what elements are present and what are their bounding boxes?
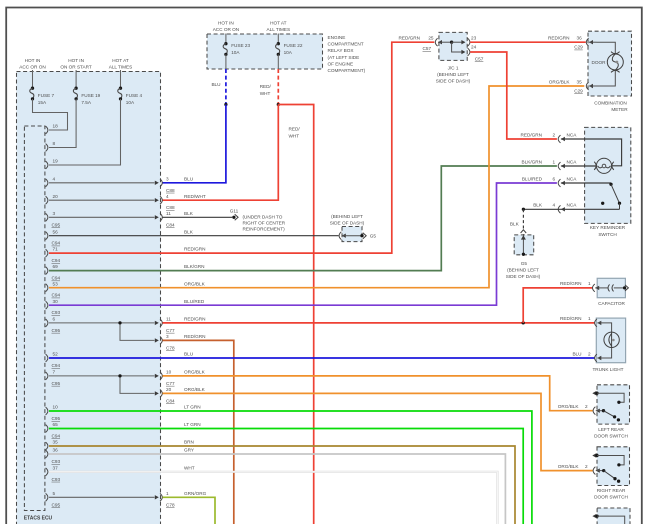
svg-text:G11: G11 <box>230 209 239 214</box>
svg-text:3: 3 <box>53 211 56 216</box>
svg-text:TRUNK LIGHT: TRUNK LIGHT <box>592 367 623 372</box>
wire NCA pin 1 into switch to bulb <box>561 165 597 167</box>
left rear door switch internal ground wire <box>597 393 624 404</box>
svg-text:10A: 10A <box>284 50 293 55</box>
svg-text:36: 36 <box>53 448 59 453</box>
svg-text:10A: 10A <box>231 50 240 55</box>
svg-text:LT GRN: LT GRN <box>184 422 201 427</box>
svg-text:C93: C93 <box>52 477 61 482</box>
svg-text:7: 7 <box>53 370 56 375</box>
key reminder switch box <box>585 127 631 223</box>
front door switch internal ground wire <box>597 516 625 524</box>
svg-text:RIGHT OF CENTER: RIGHT OF CENTER <box>243 220 286 225</box>
svg-text:11: 11 <box>166 317 171 322</box>
svg-text:36: 36 <box>577 36 583 41</box>
svg-text:COMPARTMENT: COMPARTMENT <box>328 42 364 47</box>
wire fuse F23 lower stub <box>225 54 227 69</box>
svg-text:C94: C94 <box>52 363 61 368</box>
svg-text:C77: C77 <box>166 381 175 386</box>
ETACS inner pin 8 <box>46 141 56 151</box>
svg-text:LEFT REAR: LEFT REAR <box>598 427 624 432</box>
fuse F19 (FUSE 19 7.5A) <box>73 70 100 105</box>
wire pin 7 to C77-10 with branch to C84-20 <box>49 376 155 394</box>
wire RED/WHT branch to bottom of page <box>278 105 313 524</box>
svg-text:RED/GRN: RED/GRN <box>548 36 569 41</box>
ground G5 connector (behind left side of dash) <box>339 232 366 240</box>
svg-text:(BEHIND LEFT: (BEHIND LEFT <box>331 214 363 219</box>
svg-text:6: 6 <box>553 176 556 181</box>
wire pin 20 to C88-4 <box>49 199 155 201</box>
right rear door switch box <box>597 447 630 486</box>
right rear door switch ground terminal <box>592 453 598 457</box>
wire BLU down to ETACS pin 3 C88 <box>163 105 226 183</box>
svg-text:1: 1 <box>553 159 556 164</box>
svg-text:RED/GRN: RED/GRN <box>521 132 542 137</box>
right rear door switch internal ground wire <box>597 456 624 467</box>
svg-text:C95: C95 <box>52 328 61 333</box>
svg-text:71: 71 <box>53 247 59 252</box>
svg-text:BLK/GRN: BLK/GRN <box>184 264 204 269</box>
wire BLK junction to NCA pin 4 <box>523 208 619 210</box>
svg-text:20: 20 <box>53 194 59 199</box>
ETACS outer connector pin 10 ORG/BLK C77 <box>155 370 206 386</box>
svg-text:35: 35 <box>53 440 59 445</box>
trunk light pin 1 entry connector <box>560 316 601 327</box>
svg-text:20: 20 <box>166 387 172 392</box>
svg-text:1: 1 <box>588 316 591 321</box>
svg-text:FUSE 7: FUSE 7 <box>38 93 55 98</box>
svg-text:BLK: BLK <box>533 203 543 208</box>
svg-text:C94: C94 <box>52 276 61 281</box>
wire fuse F7 to ETACS pin 18 <box>33 99 68 130</box>
svg-text:C88: C88 <box>166 188 175 193</box>
labels combination meter pins <box>548 36 583 94</box>
svg-text:(BEHIND LEFT: (BEHIND LEFT <box>507 268 539 273</box>
label ENGINE COMPARTMENT RELAY BOX location <box>328 35 366 73</box>
ETACS inner pin 18 <box>46 124 58 134</box>
svg-text:BRN: BRN <box>184 440 194 445</box>
svg-text:56: 56 <box>53 229 59 234</box>
ground G11 <box>230 209 239 221</box>
svg-text:2: 2 <box>585 464 588 469</box>
svg-text:KEY REMINDER: KEY REMINDER <box>590 225 626 230</box>
wire BLK/GRN pin 69 to key reminder switch pin 1 <box>49 166 557 271</box>
svg-text:2: 2 <box>553 132 556 137</box>
wire pin 4 to C88-3 <box>49 182 155 184</box>
key reminder bulb <box>594 158 614 173</box>
svg-text:ORG/BLK: ORG/BLK <box>184 387 206 392</box>
svg-text:OF ENGINE: OF ENGINE <box>328 61 354 66</box>
svg-text:65: 65 <box>53 422 59 427</box>
svg-text:RED/GRN: RED/GRN <box>560 281 581 286</box>
svg-text:C78: C78 <box>166 345 175 350</box>
svg-text:BLU: BLU <box>184 176 194 181</box>
ETACS inner pin 36 <box>46 448 61 464</box>
wire GRY pin 36 to bottom of page <box>49 454 505 524</box>
engine compartment relay box <box>207 34 323 69</box>
svg-text:C94: C94 <box>52 241 61 246</box>
wire BLU/RED pin 30 to key reminder switch pin 6 <box>49 183 557 305</box>
wire BLK pin 56 to ground G5 <box>49 235 339 237</box>
fuse F22 (FUSE 22 10A) <box>276 34 303 57</box>
svg-text:C57: C57 <box>475 56 484 61</box>
ETACS inner pin 56 <box>46 229 61 245</box>
trunk light box <box>596 318 625 363</box>
svg-text:NCA: NCA <box>567 203 578 208</box>
svg-text:(BEHIND LEFT: (BEHIND LEFT <box>437 72 469 77</box>
svg-text:C93: C93 <box>52 310 61 315</box>
wire ORG/BLK C84-20 to right rear door switch pin 2 <box>163 393 593 470</box>
front door switch ground terminal <box>592 514 598 518</box>
trunk light bulb <box>604 332 619 347</box>
ground G5 box (behind left side of dash, horizontal) <box>342 227 362 242</box>
svg-text:C84: C84 <box>166 398 175 403</box>
key reminder pin 6 NCA connector <box>522 176 577 187</box>
wire GRN/ORG C78-1 to bottom of page <box>163 497 216 524</box>
wire BRN pin 35 to bottom of page <box>49 446 515 524</box>
svg-text:ORG/BLK: ORG/BLK <box>558 464 580 469</box>
wire LT GRN pin 65 to bottom of page <box>49 429 523 524</box>
svg-text:FUSE 22: FUSE 22 <box>284 43 303 48</box>
ETACS outer connector pin 3 RED/GRN C78 <box>155 334 206 350</box>
svg-text:GRN/ORG: GRN/ORG <box>184 491 207 496</box>
svg-text:BLK/GRN: BLK/GRN <box>522 159 542 164</box>
wire RED/WHT down to ETACS pin 4 C88 <box>163 105 279 201</box>
svg-text:10: 10 <box>53 405 59 410</box>
wire NCA pin 6 into switch to pivot <box>561 182 611 184</box>
J/C 1 pin 23 exit connector <box>452 38 470 46</box>
fuse F4 (FUSE 4 10A) <box>118 70 143 105</box>
svg-text:METER: METER <box>611 107 628 112</box>
key reminder pin 2 NCA connector <box>521 132 578 143</box>
labels J/C 1 pins <box>399 36 484 62</box>
svg-text:RED/GRN: RED/GRN <box>399 36 420 41</box>
wire ORG/BLK C77-10 to left rear door switch pin 2 <box>163 376 593 411</box>
wire LT GRN pin 10 to bottom of page <box>49 411 532 524</box>
svg-text:ORG/BLK: ORG/BLK <box>184 281 206 286</box>
wire WHT pin 37 to bottom of page <box>49 472 497 524</box>
wire RED/WHT dashed from fuse 22 <box>277 69 279 105</box>
wire BLU pin 52 to trunk light pin 2 <box>49 357 595 359</box>
svg-text:10: 10 <box>166 370 172 375</box>
svg-text:BLK: BLK <box>510 222 520 227</box>
svg-text:ALL TIMES: ALL TIMES <box>109 65 133 70</box>
key reminder switch arm <box>601 183 621 210</box>
ETACS ECU inner connector box <box>24 126 45 511</box>
svg-text:WHT: WHT <box>184 465 195 470</box>
svg-text:SIDE OF DASH): SIDE OF DASH) <box>436 79 471 84</box>
svg-text:6: 6 <box>53 317 56 322</box>
svg-text:C29: C29 <box>574 45 583 50</box>
ETACS inner pin 19 <box>46 159 58 169</box>
svg-text:C94: C94 <box>52 434 61 439</box>
svg-text:4: 4 <box>166 194 169 199</box>
svg-text:BLU/RED: BLU/RED <box>522 176 543 181</box>
ETACS inner pin 30 <box>46 299 61 315</box>
svg-text:11: 11 <box>166 211 171 216</box>
svg-text:BLU/RED: BLU/RED <box>184 299 205 304</box>
svg-text:1: 1 <box>588 281 591 286</box>
wire RED/GRN J/C1-23 to combination meter pin 36 <box>470 41 586 43</box>
label KEY REMINDER SWITCH <box>590 225 626 237</box>
wire ORG/BLK pin 53 to combination meter pin 35 <box>49 86 584 288</box>
svg-text:HOT IN: HOT IN <box>218 21 234 26</box>
svg-text:C95: C95 <box>52 381 61 386</box>
svg-text:ORG/BLK: ORG/BLK <box>184 370 206 375</box>
svg-text:C84: C84 <box>166 222 175 227</box>
svg-text:RED/GRN: RED/GRN <box>184 334 205 339</box>
left rear door switch box <box>597 385 630 424</box>
svg-text:G5: G5 <box>521 261 528 266</box>
ETACS inner pin 3 <box>46 211 61 227</box>
svg-text:HOT AT: HOT AT <box>270 21 287 26</box>
wire pin 3 to C84-11 <box>49 216 155 218</box>
right rear door switch arm <box>596 469 620 483</box>
svg-text:25: 25 <box>428 36 434 41</box>
ETACS ECU outer box <box>17 72 161 524</box>
fuse F23 (FUSE 23 10A) <box>223 34 250 57</box>
svg-text:J/C 1: J/C 1 <box>448 65 459 70</box>
door indicator bulb <box>607 52 623 73</box>
svg-text:18: 18 <box>53 124 59 129</box>
svg-text:NCA: NCA <box>567 176 578 181</box>
ETACS inner pin 7 <box>46 370 61 386</box>
wire fuse F22 lower stub <box>277 54 279 69</box>
svg-text:BLU: BLU <box>572 351 582 356</box>
junction node on BLU wire <box>224 103 227 106</box>
wire BLK dashed down to ground G5 <box>522 209 524 229</box>
combination meter pin 36 entry connector <box>586 38 596 46</box>
svg-text:5: 5 <box>53 491 56 496</box>
svg-text:3: 3 <box>166 334 169 339</box>
svg-text:GRY: GRY <box>184 448 195 453</box>
ETACS inner pin 37 <box>46 465 61 481</box>
wire fuse F19 to ETACS pin 8 <box>49 99 76 148</box>
svg-text:10A: 10A <box>126 100 135 105</box>
svg-text:REINFORCEMENT): REINFORCEMENT) <box>243 226 286 231</box>
ETACS outer connector pin 1 GRN/ORG C78 <box>155 491 207 507</box>
label LEFT REAR DOOR SWITCH <box>594 427 628 439</box>
svg-text:SIDE OF DASH): SIDE OF DASH) <box>330 221 365 226</box>
ground G5 below key reminder switch <box>521 230 527 256</box>
junction node capacitor branch <box>522 321 525 324</box>
front door switch box (cut off at bottom) <box>597 508 630 524</box>
svg-text:35: 35 <box>577 80 583 85</box>
svg-text:ACC OR ON: ACC OR ON <box>213 27 239 32</box>
svg-text:NCA: NCA <box>567 132 578 137</box>
svg-text:ENGINE: ENGINE <box>328 35 346 40</box>
trunk light internal wiring <box>597 323 611 358</box>
svg-text:RED/GRN: RED/GRN <box>184 247 205 252</box>
svg-text:4: 4 <box>53 176 56 181</box>
J/C 1 pin 24 branch and exit connector <box>452 42 470 56</box>
ETACS outer connector pin 11 BLK C84 <box>155 211 194 227</box>
key reminder pin 1 NCA connector <box>522 159 578 170</box>
svg-text:RIGHT REAR: RIGHT REAR <box>597 488 626 493</box>
combination meter box <box>588 31 632 96</box>
ETACS outer connector pin 11 RED/GRN C77 <box>155 317 206 333</box>
svg-text:7.5A: 7.5A <box>81 100 91 105</box>
wire RED/GRN C77-11 to trunk light pin 1 <box>163 322 596 324</box>
svg-text:C94: C94 <box>52 258 61 263</box>
svg-text:WHT: WHT <box>260 91 271 96</box>
svg-text:C78: C78 <box>166 502 175 507</box>
svg-text:FUSE 19: FUSE 19 <box>81 93 100 98</box>
left rear door switch ground terminal <box>592 391 598 395</box>
ETACS inner pin 65 <box>46 422 61 438</box>
svg-text:C95: C95 <box>52 502 61 507</box>
ETACS inner pin 10 <box>46 405 61 421</box>
svg-text:19: 19 <box>53 159 59 164</box>
ETACS inner pin 6 <box>46 317 61 333</box>
svg-text:ORG/BLK: ORG/BLK <box>549 80 571 85</box>
ETACS outer connector pin 4 RED/WHT C88 <box>155 194 206 210</box>
svg-text:COMPARTMENT): COMPARTMENT) <box>328 68 366 73</box>
svg-text:FUSE 4: FUSE 4 <box>126 93 143 98</box>
junction node on RED/WHT wire <box>277 103 280 106</box>
svg-text:C29: C29 <box>574 89 583 94</box>
J/C 1 pin 25 entry connector <box>435 38 451 46</box>
svg-text:RED/GRN: RED/GRN <box>560 316 581 321</box>
svg-text:BLU: BLU <box>211 82 221 87</box>
svg-text:37: 37 <box>53 465 59 470</box>
wire pin 5 to C78-1 <box>49 496 155 498</box>
ETACS inner pin 52 <box>46 352 61 368</box>
svg-text:8: 8 <box>53 141 56 146</box>
svg-text:SIDE OF DASH): SIDE OF DASH) <box>506 274 541 279</box>
svg-text:NCA: NCA <box>567 159 578 164</box>
label G5 location <box>506 268 541 280</box>
label RIGHT REAR DOOR SWITCH <box>594 488 628 500</box>
ETACS inner pin 35 <box>46 440 58 450</box>
wire fuse F4 to ETACS pin 19 <box>49 99 121 165</box>
svg-text:DOOR SWITCH: DOOR SWITCH <box>594 434 628 439</box>
wire BLK C84-11 to ground G11 <box>163 216 233 218</box>
svg-text:RED/: RED/ <box>260 84 272 89</box>
svg-text:C95: C95 <box>52 222 61 227</box>
svg-text:2: 2 <box>588 351 591 356</box>
svg-text:HOT IN: HOT IN <box>25 58 41 63</box>
svg-text:DOOR SWITCH: DOOR SWITCH <box>594 494 628 499</box>
left rear door switch arm <box>596 409 620 421</box>
ETACS inner pin 20 <box>46 194 58 204</box>
label G11 location <box>243 214 286 231</box>
svg-text:C77: C77 <box>166 328 175 333</box>
svg-text:C94: C94 <box>52 293 61 298</box>
wire RED/GRN C78-3 to bottom of page <box>163 340 234 524</box>
svg-text:HOT IN: HOT IN <box>68 58 84 63</box>
combination meter internal wiring <box>597 42 616 86</box>
ETACS outer connector pin 20 ORG/BLK C84 <box>155 387 206 403</box>
svg-text:ALL TIMES: ALL TIMES <box>267 27 291 32</box>
ETACS outer connector pin 3 BLU C88 <box>155 176 194 192</box>
svg-text:LT GRN: LT GRN <box>184 405 201 410</box>
svg-text:RELAY BOX: RELAY BOX <box>328 48 355 53</box>
svg-text:15A: 15A <box>38 100 47 105</box>
wire RED/GRN pin 71 to J/C 1 pin 25 <box>49 42 434 253</box>
left rear door switch pin 2 connector <box>558 404 600 415</box>
svg-text:HOT AT: HOT AT <box>112 58 129 63</box>
svg-text:C95: C95 <box>52 416 61 421</box>
ground G5 box (below key reminder switch, vertical) <box>514 235 534 255</box>
svg-text:69: 69 <box>53 264 59 269</box>
key reminder pin 4 NCA connector <box>533 203 577 214</box>
svg-text:(AT LEFT SIDE: (AT LEFT SIDE <box>328 55 360 60</box>
ETACS inner pin 69 <box>46 264 61 280</box>
wire RED/GRN branch to capacitor pin 1 <box>523 288 592 323</box>
svg-text:ETACS ECU: ETACS ECU <box>24 516 53 522</box>
label G5 location <box>330 214 365 226</box>
capacitor element C1 <box>595 284 628 291</box>
svg-text:RED/WHT: RED/WHT <box>184 194 206 199</box>
svg-text:G5: G5 <box>370 234 377 239</box>
combination meter pin 35 entry connector <box>586 82 596 90</box>
svg-text:30: 30 <box>53 299 59 304</box>
svg-text:C93: C93 <box>52 459 61 464</box>
trunk light pin 2 entry connector <box>572 351 601 362</box>
label J/C 1 name <box>436 65 471 83</box>
svg-text:WHT: WHT <box>289 133 300 138</box>
svg-text:52: 52 <box>53 352 59 357</box>
svg-text:BLK: BLK <box>184 229 194 234</box>
capacitor box <box>597 278 625 297</box>
svg-text:53: 53 <box>53 281 59 286</box>
svg-text:C88: C88 <box>166 205 175 210</box>
svg-text:23: 23 <box>471 36 477 41</box>
svg-text:ON OR START: ON OR START <box>60 65 92 70</box>
wire pin 6 to C77-11 with branch to C78-3 <box>49 323 155 341</box>
right rear door switch pin 2 connector <box>558 464 600 475</box>
svg-text:C57: C57 <box>423 46 432 51</box>
svg-text:FUSE 23: FUSE 23 <box>231 43 250 48</box>
svg-text:4: 4 <box>553 203 556 208</box>
svg-text:RED/GRN: RED/GRN <box>184 317 205 322</box>
junction node BLK to ground <box>522 208 525 211</box>
ETACS inner pin 5 <box>46 491 61 507</box>
svg-text:3: 3 <box>166 176 169 181</box>
wire BLU dashed from fuse 23 <box>225 69 227 105</box>
svg-text:24: 24 <box>471 44 477 49</box>
ETACS inner pin 53 <box>46 281 61 297</box>
capacitor pin 1 entry connector <box>560 281 599 292</box>
fuse F7 (FUSE 7 15A) <box>30 70 55 105</box>
svg-text:DOOR: DOOR <box>592 60 607 65</box>
svg-text:ACC OR ON: ACC OR ON <box>19 65 45 70</box>
wire NCA pin 2 into switch to bulb <box>561 139 622 166</box>
label COMBINATION METER <box>594 100 628 112</box>
wire RED/GRN J/C1-24 to key reminder switch pin 2 <box>470 52 557 139</box>
svg-text:2: 2 <box>585 404 588 409</box>
svg-text:(UNDER DASH TO: (UNDER DASH TO <box>243 214 283 219</box>
ETACS inner pin 71 <box>46 247 61 263</box>
svg-text:BLU: BLU <box>184 352 194 357</box>
svg-text:BLK: BLK <box>184 211 194 216</box>
svg-text:RED/: RED/ <box>289 127 301 132</box>
svg-text:SWITCH: SWITCH <box>598 232 616 237</box>
svg-text:CAPACITOR: CAPACITOR <box>598 301 625 306</box>
J/C 1 internal junction node <box>450 41 453 44</box>
svg-text:ORG/BLK: ORG/BLK <box>558 404 580 409</box>
svg-text:COMBINATION: COMBINATION <box>594 100 627 105</box>
junction connector J/C 1 box <box>439 32 467 60</box>
ETACS inner pin 4 <box>46 176 56 186</box>
svg-text:1: 1 <box>166 491 169 496</box>
